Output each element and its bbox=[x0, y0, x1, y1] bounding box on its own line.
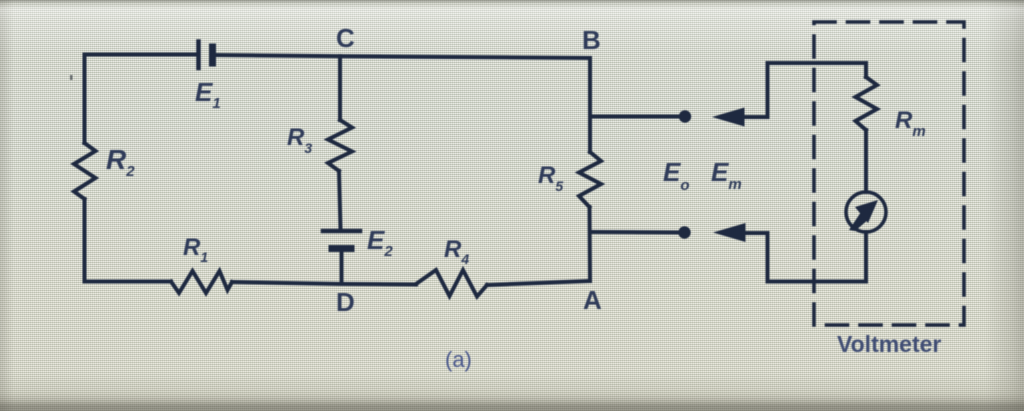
resistor R5 bbox=[579, 152, 601, 207]
wire top left segment bbox=[85, 55, 197, 59]
resistor R2 bbox=[74, 143, 96, 199]
resistor R1 bbox=[171, 271, 232, 293]
wire bottom left bbox=[85, 280, 172, 284]
wire left vertical upper bbox=[83, 55, 87, 144]
wire R3 to E2 bbox=[339, 171, 341, 229]
battery E2 bbox=[323, 231, 360, 249]
wire top right segment bbox=[215, 55, 590, 58]
resistor R3 bbox=[328, 120, 352, 171]
wire Rm to meter bbox=[864, 130, 868, 192]
svg-text:Rm: Rm bbox=[895, 107, 926, 140]
arrow top (voltmeter lead) bbox=[712, 108, 745, 127]
voltmeter dashed box bbox=[814, 22, 964, 325]
dust speck bbox=[70, 75, 73, 80]
arrow bottom (voltmeter lead) bbox=[713, 223, 746, 242]
resistor Rm bbox=[856, 77, 878, 130]
svg-text:E1: E1 bbox=[195, 77, 221, 112]
wire Rm top bbox=[864, 63, 868, 77]
wire arrow bottom to loop bbox=[744, 233, 866, 282]
wire bottom right bbox=[487, 281, 590, 285]
svg-text:B: B bbox=[582, 25, 601, 55]
wire bottom middle bbox=[232, 282, 416, 285]
svg-text:Eo: Eo bbox=[663, 157, 690, 194]
svg-text:E2: E2 bbox=[367, 225, 393, 260]
wire left vertical lower bbox=[83, 199, 87, 282]
svg-text:R4: R4 bbox=[444, 236, 469, 267]
node dot terminal top bbox=[679, 110, 691, 122]
node C wire / wire R3 upper bbox=[338, 56, 342, 120]
svg-text:Voltmeter: Voltmeter bbox=[837, 331, 941, 357]
svg-text:D: D bbox=[336, 287, 355, 317]
svg-text:R1: R1 bbox=[183, 234, 208, 265]
meter M circle bbox=[846, 192, 886, 232]
meter needle bbox=[849, 200, 878, 231]
svg-text:A: A bbox=[583, 285, 602, 315]
svg-text:Em: Em bbox=[711, 157, 742, 193]
wire right vertical upper bbox=[588, 59, 592, 152]
wire right vertical lower bbox=[588, 207, 593, 281]
svg-text:R5: R5 bbox=[538, 162, 563, 194]
node dot terminal bottom bbox=[678, 226, 690, 238]
svg-text:(a): (a) bbox=[445, 347, 472, 372]
wire meter to bottom bbox=[864, 232, 868, 282]
wire arrow top to loop bbox=[743, 63, 866, 117]
wire E2 to node D bbox=[340, 250, 344, 283]
svg-text:C: C bbox=[336, 23, 355, 53]
resistor R4 bbox=[416, 270, 487, 297]
svg-text:R2: R2 bbox=[106, 144, 135, 180]
svg-text:R3: R3 bbox=[287, 124, 312, 156]
battery E1 bbox=[199, 42, 213, 69]
wire terminal Eo top bbox=[590, 115, 681, 119]
wire terminal Eo bottom bbox=[590, 230, 681, 235]
